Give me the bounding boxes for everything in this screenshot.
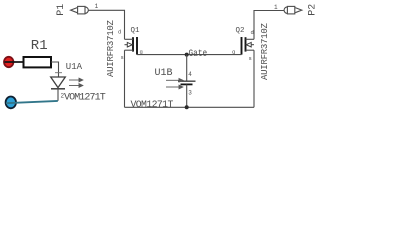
- Q1 channel bar: [132, 37, 134, 51]
- wire bottom source rail: [125, 106, 255, 108]
- wire Q2 source to bottom rail: [253, 50, 255, 107]
- svg-text:VOM1271T: VOM1271T: [64, 93, 106, 104]
- U1B top plate: [178, 80, 196, 82]
- Q2 gate bar: [241, 37, 243, 55]
- connector P1: [71, 6, 89, 13]
- LED triangle of U1A: [51, 77, 66, 88]
- pad (blue terminal): [6, 97, 16, 109]
- wire P1 to Q1 drain corner: [88, 10, 124, 39]
- wire U1A cathode pin: [57, 89, 59, 101]
- svg-text:1: 1: [274, 4, 278, 11]
- pad (red terminal): [4, 57, 13, 67]
- junction on Gate net: [185, 53, 189, 57]
- wire P2 to Q2 drain corner: [254, 11, 284, 40]
- Q2 drain stub: [246, 38, 255, 40]
- svg-text:1: 1: [95, 3, 99, 10]
- svg-text:d: d: [251, 29, 254, 36]
- wire R1 to U1A anode: [51, 62, 59, 77]
- light arrow 2 of U1A: [69, 84, 83, 88]
- Q1 gate bar: [136, 37, 138, 55]
- svg-text:VOM1271T: VOM1271T: [131, 99, 174, 110]
- light arrow 1 of U1A: [69, 78, 83, 82]
- svg-text:Gate: Gate: [189, 48, 208, 59]
- svg-text:R1: R1: [31, 38, 48, 54]
- svg-text:U1B: U1B: [155, 68, 173, 79]
- wire Q1 source to bottom rail: [124, 50, 126, 107]
- svg-text:Q2: Q2: [236, 27, 245, 35]
- light arrow 1 of U1B: [166, 79, 183, 83]
- opto LED U1A: [51, 77, 83, 89]
- U1B bottom pin wire: [186, 84, 188, 107]
- photovoltaic output U1B: [166, 55, 196, 108]
- svg-text:AUIRFR3710Z: AUIRFR3710Z: [106, 19, 116, 77]
- LED cathode bar of U1A: [51, 88, 65, 90]
- U1B bottom plate: [181, 83, 193, 85]
- wire blue pad to U1A cathode: [6, 101, 58, 103]
- svg-text:4: 4: [188, 71, 192, 78]
- svg-text:U1A: U1A: [66, 62, 83, 72]
- svg-text:AUIRFR3710Z: AUIRFR3710Z: [260, 22, 270, 80]
- Q1 drain stub: [125, 38, 134, 40]
- resistor R1: [24, 57, 52, 67]
- wire red pad to R1: [5, 61, 24, 63]
- U1B top pin wire: [186, 55, 188, 81]
- transistor Q2: [242, 37, 255, 55]
- svg-text:d: d: [118, 29, 121, 36]
- svg-text:s: s: [249, 55, 252, 62]
- light arrow 2 of U1B: [166, 85, 183, 89]
- transistor Q1: [125, 37, 138, 55]
- Q1 body arrow: [125, 42, 133, 47]
- svg-text:P2: P2: [308, 4, 319, 16]
- pin 1 tick of U1A: [55, 72, 62, 74]
- junction on bottom rail: [185, 105, 189, 109]
- Q2 channel bar: [245, 37, 247, 51]
- svg-text:s: s: [121, 54, 124, 61]
- Q1 source stub: [125, 49, 134, 51]
- svg-text:Q1: Q1: [131, 27, 141, 35]
- connector P2: [284, 6, 302, 13]
- svg-text:P1: P1: [56, 4, 67, 16]
- Q2 source stub: [246, 49, 255, 51]
- Q2 body arrow: [246, 42, 254, 47]
- wire Gate net: [137, 54, 242, 56]
- svg-text:3: 3: [188, 90, 192, 97]
